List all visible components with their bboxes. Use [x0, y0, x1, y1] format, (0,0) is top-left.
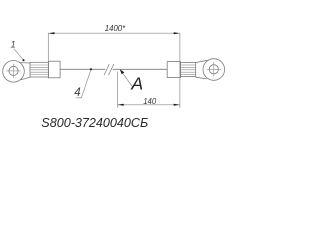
right hole center mark horizontal	[207, 68, 221, 70]
arrow left of 1400 dim	[48, 32, 54, 34]
left hole center mark horizontal	[6, 70, 20, 72]
right ring terminal outer circle	[203, 59, 225, 81]
dimension 140 line	[118, 104, 180, 106]
extension line right shared	[179, 33, 181, 108]
wire break slash 1	[104, 64, 109, 75]
right lug neck top	[196, 60, 208, 62]
left hole center mark vertical	[13, 64, 15, 78]
arrow left of 140 dim	[118, 104, 124, 106]
leader line callout 4	[81, 69, 91, 97]
leader line callout 1	[14, 49, 23, 60]
right wire insulation end	[167, 62, 180, 78]
left crimp barrel	[30, 62, 49, 77]
right barrel serration lines	[181, 65, 196, 75]
left ring terminal hole	[9, 66, 18, 75]
right hole center mark vertical	[213, 62, 215, 76]
extension line left of 1400	[47, 33, 49, 78]
extension line left of 140	[117, 72, 119, 108]
dimension 1400 line	[48, 32, 180, 34]
left lug neck top	[20, 62, 30, 64]
left wire insulation end	[49, 61, 61, 78]
svg-text:140: 140	[143, 97, 157, 106]
leader dot callout 4	[90, 68, 92, 70]
view A leader line	[120, 69, 133, 87]
right lug neck bottom	[196, 77, 207, 79]
left lug neck bottom	[21, 77, 30, 80]
wire left segment	[60, 68, 105, 70]
wire right segment	[113, 68, 167, 70]
svg-text:4: 4	[74, 87, 80, 99]
arrow right of 140 dim	[174, 104, 180, 106]
svg-text:А: А	[130, 74, 143, 94]
right ring terminal hole	[209, 65, 218, 74]
left barrel serration lines	[30, 65, 49, 75]
leader dot callout 1	[22, 59, 24, 61]
arrow right of 1400 dim	[174, 32, 180, 34]
left ring terminal outer circle	[3, 61, 25, 83]
right crimp barrel	[181, 62, 196, 76]
leader shelf under 4	[76, 97, 82, 99]
view A arrowhead	[120, 69, 125, 74]
svg-text:1: 1	[10, 39, 15, 50]
wire break slash 2	[109, 64, 114, 75]
svg-text:1400*: 1400*	[105, 24, 126, 33]
svg-text:S800-37240040СБ: S800-37240040СБ	[41, 116, 148, 130]
